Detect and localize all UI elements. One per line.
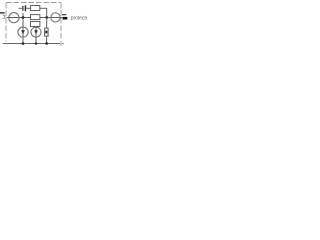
gas discharge tube GDT1 (circle, left)	[9, 13, 19, 23]
device dashed enclosure	[6, 3, 61, 47]
wire (resistor R1 to junction)	[40, 7, 47, 9]
wire (vertical, GDT3 to ground)	[46, 36, 48, 43]
surge arrester F2 (circle)	[31, 27, 41, 37]
protected-side marker (thin bar)	[62, 14, 66, 15]
junction (GDT3 / ground)	[45, 42, 48, 45]
capacitor C1 plate 2	[25, 5, 26, 11]
wire (capacitor to resistor)	[26, 7, 30, 9]
wire (vertical stub above middle line at junction)	[22, 13, 24, 17]
GDT3 gas dot	[45, 30, 47, 33]
wire (vertical, top branch down to middle line)	[46, 8, 48, 17]
gas discharge tube GDT2 (circle, right)	[51, 13, 60, 22]
junction (F2 / ground)	[35, 42, 38, 45]
ground wire stub outside enclosure	[62, 43, 64, 45]
wire (vertical, R3 to arrester F2)	[35, 26, 37, 43]
surge arrester F1 arrow	[21, 30, 25, 34]
wire (vertical, arrester F1 branch)	[22, 18, 24, 44]
protected-side marker (thick bar)	[63, 17, 68, 20]
resistor R1 (top branch)	[31, 6, 40, 11]
resistor R3 (below R2)	[31, 22, 40, 27]
capacitor C1 plate 1	[22, 6, 23, 11]
surge arrester F2 arrow	[34, 30, 38, 34]
terminal mark (left, arc)	[3, 15, 5, 19]
wire (top branch lead-in)	[19, 7, 23, 9]
resistor R2 (middle line, series)	[31, 15, 40, 20]
junction (middle line / GDT3 branch)	[45, 16, 48, 19]
terminal mark (left, bar)	[0, 12, 5, 13]
wire (vertical, junction down to GDT3)	[46, 18, 48, 29]
junction (middle line / F1 branch)	[22, 16, 25, 19]
surge arrester F1 (circle)	[18, 27, 28, 37]
svg-text:protected: protected	[71, 15, 87, 21]
ground / reference wire	[3, 43, 60, 45]
gas discharge tube GDT3 (rectangle)	[45, 28, 49, 36]
junction (F1 / ground)	[22, 42, 25, 45]
line wire (middle row)	[7, 17, 63, 19]
